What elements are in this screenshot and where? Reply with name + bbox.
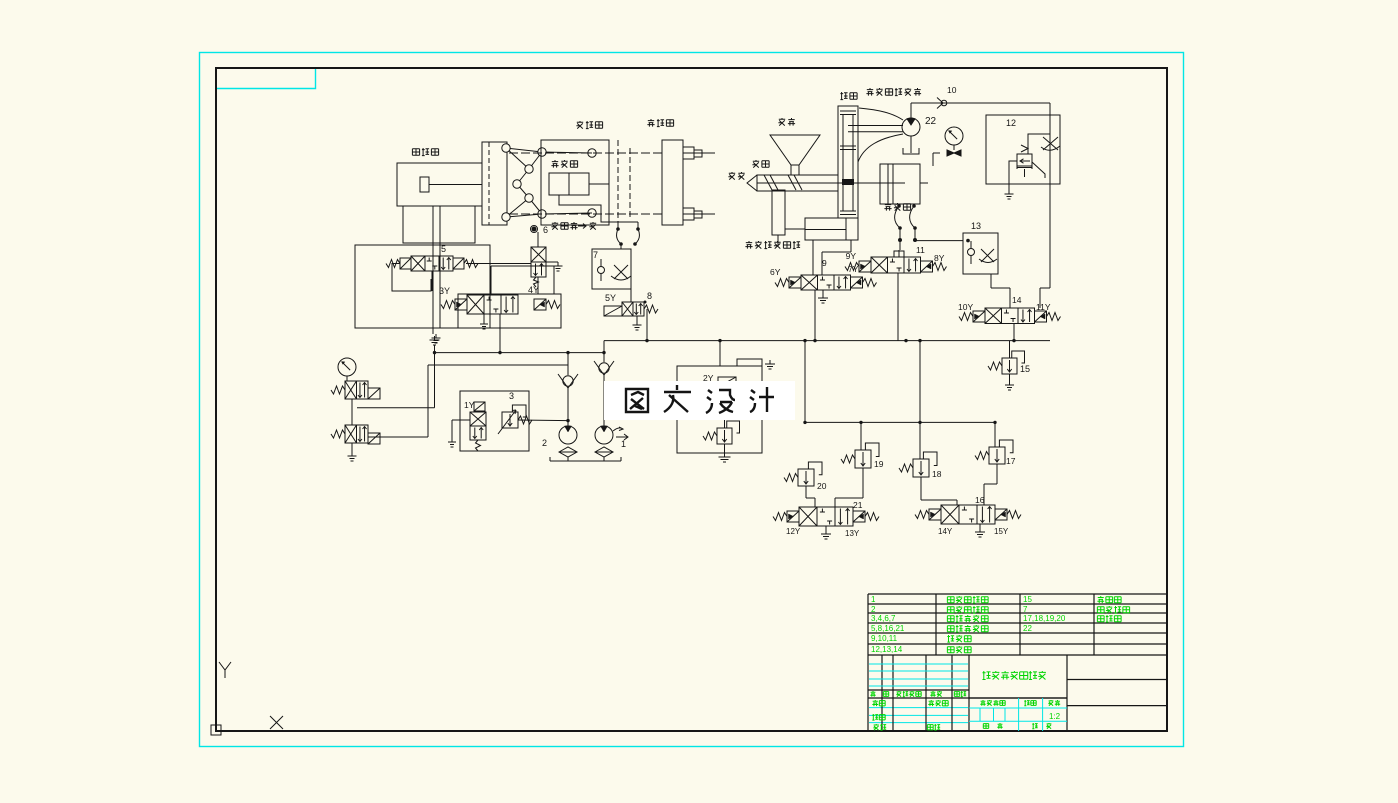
svg-text:9,10,11: 9,10,11 — [871, 634, 898, 643]
svg-text:15: 15 — [1020, 364, 1030, 374]
svg-text:2: 2 — [871, 605, 876, 614]
svg-text:15Y: 15Y — [994, 527, 1009, 536]
svg-text:15: 15 — [1023, 595, 1032, 604]
svg-text:10: 10 — [947, 85, 957, 95]
svg-text:5: 5 — [441, 244, 446, 254]
svg-text:1: 1 — [621, 439, 626, 449]
svg-text:21: 21 — [853, 500, 863, 510]
svg-text:8Y: 8Y — [934, 253, 945, 263]
svg-text:3Y: 3Y — [439, 286, 450, 296]
svg-text:22: 22 — [1023, 624, 1032, 633]
svg-text:6: 6 — [543, 225, 548, 235]
svg-text:7: 7 — [593, 250, 598, 260]
svg-text:20: 20 — [817, 481, 827, 491]
svg-text:9Y: 9Y — [846, 251, 857, 261]
svg-text:19: 19 — [874, 459, 884, 469]
svg-text:14: 14 — [1012, 295, 1022, 305]
svg-text:5,8,16,21: 5,8,16,21 — [871, 624, 905, 633]
svg-text:12,13,14: 12,13,14 — [871, 645, 903, 654]
svg-text:8: 8 — [647, 291, 652, 301]
svg-text:1: 1 — [871, 595, 876, 604]
svg-text:22: 22 — [925, 116, 937, 127]
svg-text:17: 17 — [1006, 456, 1016, 466]
svg-text:12Y: 12Y — [786, 527, 801, 536]
svg-text:10Y: 10Y — [958, 302, 973, 312]
svg-text:11: 11 — [916, 245, 925, 255]
svg-text:13: 13 — [971, 221, 981, 231]
svg-text:7: 7 — [1023, 605, 1028, 614]
svg-text:18: 18 — [932, 469, 942, 479]
svg-text:3: 3 — [509, 391, 514, 401]
svg-text:1Y: 1Y — [464, 400, 475, 410]
svg-text:16: 16 — [975, 495, 985, 505]
svg-text:2: 2 — [542, 438, 547, 448]
svg-text:3,4,6,7: 3,4,6,7 — [871, 614, 896, 623]
svg-text:6Y: 6Y — [770, 267, 781, 277]
svg-text:13Y: 13Y — [845, 529, 860, 538]
svg-text:12: 12 — [1006, 118, 1016, 128]
svg-text:17,18,19,20: 17,18,19,20 — [1023, 614, 1066, 623]
svg-text:9: 9 — [822, 258, 827, 268]
svg-text:4Y: 4Y — [528, 285, 539, 295]
svg-text:5Y: 5Y — [605, 293, 616, 303]
svg-text:1:2: 1:2 — [1049, 712, 1061, 721]
svg-text:14Y: 14Y — [938, 527, 953, 536]
